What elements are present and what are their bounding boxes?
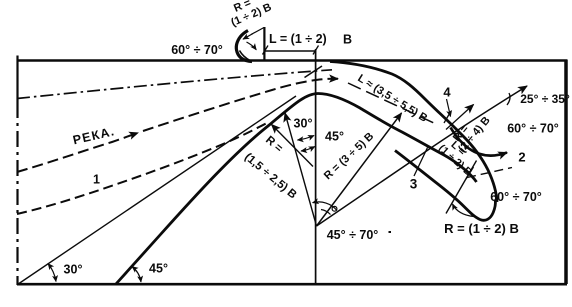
bottom bank line [17,283,567,286]
label R=(2-4)B rotated [448,107,493,155]
svg-text:B: B [343,33,352,47]
svg-text:(1,5 ÷ 2,5) B: (1,5 ÷ 2,5) B [242,151,299,201]
left edge dash-dot part [16,102,18,285]
svg-text:25° ÷ 35°: 25° ÷ 35° [520,92,570,106]
flow line 2 [17,123,268,215]
small angle arc at top arrow [507,93,510,105]
main dike thick curve with end hook [116,94,477,285]
trailing dot after 45-70 [389,231,392,233]
svg-text:L ≈ (3,5 ÷ 5,5) B: L ≈ (3,5 ÷ 5,5) B [355,72,429,124]
spur curved head (thick arc) [236,31,252,62]
dimension tick right [313,46,319,55]
left edge solid part [16,56,18,103]
spur radius arrow up-left [251,28,264,35]
small double arrow arc 30 [298,136,315,141]
lower dike edge into hook [395,151,495,221]
spur head inner arc [240,51,251,61]
dike axis vertical centerline [315,49,317,284]
dashed leader to 2 [467,168,512,178]
svg-text:РЕКА.: РЕКА. [72,124,117,147]
45-degree angle arc [132,267,141,283]
vertex fan arc inner [321,210,331,215]
right bank edge [564,60,568,285]
label R=(1-2)B spur rotated [225,0,274,29]
spur radius arrow down-right [247,42,257,50]
svg-text:60° ÷ 70°: 60° ÷ 70° [507,122,559,136]
dike axis dashes under band label [348,83,436,124]
band dimension tick lower [466,167,474,179]
svg-text:30°: 30° [64,263,83,277]
svg-text:60° ÷ 70°: 60° ÷ 70° [490,190,542,204]
svg-text:4: 4 [443,85,451,100]
svg-text:1: 1 [93,173,100,187]
svg-text:60° ÷ 70°: 60° ÷ 70° [171,43,223,57]
flow line 1 upstream segment with arrow [17,133,138,172]
label L=(1-2)B band rotated [436,134,482,179]
svg-text:30°: 30° [294,117,313,131]
svg-text:R = (1 ÷ 2) B: R = (1 ÷ 2) B [444,221,519,236]
upper dike band curve [330,62,497,203]
svg-text:3: 3 [410,177,418,192]
small double arrow arc 45 [301,147,315,152]
flow line 1 downstream segment with arrow [143,79,338,131]
svg-text:2: 2 [518,150,525,165]
top bank line [17,59,567,61]
radius line R=(2-4)B [317,86,528,226]
svg-text:L = (1 ÷ 2): L = (1 ÷ 2) [269,32,327,46]
vertex fan arc outer [313,202,337,211]
dimension tick left [263,46,269,55]
hook chord thin line [446,161,477,214]
radius arrow to crest shoulder [285,113,317,226]
leader line for 3 [414,148,428,177]
short flow arrow near 4 [446,105,474,130]
svg-text:45° ÷ 70°: 45° ÷ 70° [327,228,379,242]
spur root vertical line [263,27,265,60]
band dimension tick upper [444,111,451,123]
dimension line L=(1/2)B [265,50,316,52]
leader arrow for 4 [447,99,451,117]
radius line R=(3-5)B [317,113,402,226]
30-degree angle arc [48,264,56,282]
corner 30-degree line [18,96,297,285]
hook angle arc [453,204,475,217]
svg-text:45°: 45° [149,262,168,276]
radius leader R=(1.5-2.5)B [272,125,314,167]
small circle at fan arc end [332,206,337,211]
svg-text:R =: R = [263,134,285,155]
curved arrow to 2 [451,128,508,156]
axis slash tick [305,66,323,78]
svg-text:45°: 45° [325,130,344,144]
river axis dash-dot line [17,70,332,99]
